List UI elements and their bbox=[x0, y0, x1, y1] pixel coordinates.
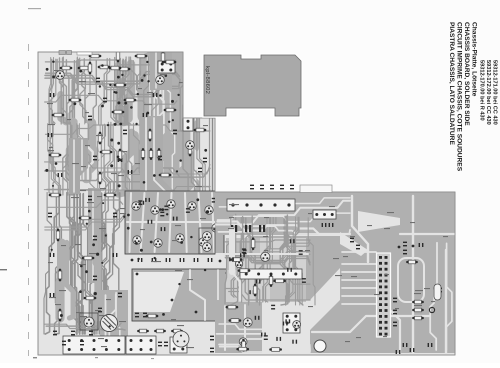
pad bbox=[147, 80, 149, 82]
pad bbox=[146, 61, 148, 63]
wire bbox=[209, 118, 211, 192]
wire bbox=[101, 193, 109, 334]
pad bbox=[137, 258, 139, 260]
registration mark top-left bbox=[28, 8, 41, 9]
wire bbox=[45, 74, 179, 84]
transistor Q7 bbox=[154, 239, 162, 247]
wire bbox=[189, 58, 195, 195]
resistor R101 bbox=[78, 66, 91, 70]
capacitor C112 bbox=[152, 258, 157, 262]
copper pour bbox=[156, 57, 169, 194]
capacitor C134 bbox=[240, 336, 244, 341]
wire bbox=[225, 240, 310, 255]
transistor Q30 hatched bbox=[101, 315, 118, 332]
pad bbox=[219, 260, 222, 263]
resistor R128 bbox=[89, 54, 102, 58]
pad bbox=[110, 139, 113, 142]
resistor R135 bbox=[69, 98, 82, 102]
capacitor C159 bbox=[285, 319, 290, 323]
wire bbox=[75, 194, 80, 335]
wire bbox=[216, 201, 350, 225]
transistor Q1 bbox=[132, 202, 140, 210]
pad bbox=[127, 227, 130, 230]
wire bbox=[244, 305, 246, 350]
wire bbox=[67, 122, 73, 195]
wire bbox=[264, 216, 271, 302]
wire bbox=[157, 56, 164, 125]
wire bbox=[219, 322, 310, 329]
copper pour bbox=[135, 135, 138, 194]
wire bbox=[127, 221, 222, 223]
copper pour bbox=[118, 64, 122, 122]
wire bbox=[256, 218, 267, 302]
resistor R138 bbox=[112, 110, 125, 114]
resistor R112 bbox=[171, 329, 183, 333]
connector IC4 bbox=[126, 336, 156, 354]
copper pour bbox=[145, 58, 154, 194]
pad bbox=[196, 198, 199, 201]
wire bbox=[178, 57, 181, 124]
pad bbox=[107, 124, 109, 126]
copper pour bbox=[88, 188, 101, 283]
pad bbox=[101, 64, 104, 67]
copper pour bbox=[226, 238, 260, 270]
wire bbox=[154, 118, 166, 210]
wire bbox=[101, 125, 108, 195]
resistor R107 bbox=[100, 150, 113, 154]
wire bbox=[48, 125, 60, 195]
wire bbox=[285, 216, 295, 305]
pad bbox=[135, 123, 137, 125]
wire bbox=[145, 118, 147, 210]
pad bbox=[114, 123, 117, 126]
wire bbox=[70, 193, 83, 334]
transistor Q14 bbox=[235, 260, 242, 267]
wire bbox=[231, 217, 243, 306]
pad bbox=[204, 149, 207, 152]
wire bbox=[66, 124, 71, 195]
capacitor C111 bbox=[138, 258, 143, 262]
pad bbox=[143, 74, 145, 76]
wire bbox=[217, 222, 350, 235]
board edge tab bbox=[300, 185, 332, 193]
copper pour bbox=[192, 57, 199, 194]
wire bbox=[219, 339, 310, 351]
capacitor C120 bbox=[164, 342, 168, 347]
wire bbox=[111, 122, 117, 193]
wire bbox=[84, 128, 87, 180]
wire bbox=[134, 123, 144, 195]
pad bbox=[171, 100, 174, 103]
pad bbox=[85, 270, 88, 273]
wire bbox=[57, 59, 67, 124]
resistor R132 bbox=[88, 62, 92, 75]
transistor Q17 bbox=[203, 232, 212, 241]
capacitor C163 bbox=[256, 280, 261, 284]
wire bbox=[342, 279, 376, 281]
connector IC8 bbox=[283, 313, 300, 333]
capacitor C143 bbox=[438, 288, 442, 293]
wire bbox=[78, 61, 87, 122]
wire bbox=[398, 258, 424, 302]
wire bbox=[60, 58, 68, 124]
capacitor C154 bbox=[299, 250, 303, 255]
capacitor C191 bbox=[118, 293, 122, 298]
resistor R154 bbox=[58, 309, 62, 322]
wire bbox=[125, 61, 131, 125]
wire bbox=[180, 57, 188, 195]
wire bbox=[127, 61, 133, 125]
transistor Q19 bbox=[239, 338, 247, 346]
transistor Q12 bbox=[84, 317, 94, 327]
reference labels bbox=[47, 70, 211, 348]
transistor Q8 bbox=[176, 234, 184, 242]
pad bbox=[226, 272, 229, 275]
resistor R106 bbox=[157, 148, 161, 160]
wire bbox=[185, 193, 187, 252]
wire bbox=[68, 126, 74, 196]
wire bbox=[97, 192, 110, 334]
wire bbox=[87, 193, 99, 330]
capacitor C192 bbox=[98, 308, 102, 313]
resistor R139 bbox=[164, 108, 177, 112]
wire bbox=[169, 193, 171, 252]
pad bbox=[124, 102, 127, 105]
wire bbox=[94, 194, 106, 334]
wire bbox=[69, 59, 79, 124]
connector IC3 bbox=[63, 336, 125, 354]
resistor R141 bbox=[148, 129, 152, 142]
wire bbox=[225, 240, 310, 242]
wire bbox=[50, 123, 55, 195]
capacitor C130 bbox=[220, 336, 224, 341]
wire bbox=[116, 59, 120, 124]
wire bbox=[107, 294, 116, 338]
resistor R116 bbox=[406, 260, 418, 264]
copper pour bbox=[95, 243, 98, 318]
wire bbox=[49, 59, 55, 123]
wire bbox=[66, 60, 69, 124]
pad bbox=[171, 299, 174, 302]
copper pour bbox=[168, 57, 179, 194]
capacitor C126 bbox=[80, 341, 84, 346]
pad bbox=[115, 91, 118, 94]
resistor R104 bbox=[141, 148, 145, 160]
wire bbox=[116, 293, 120, 338]
wire bbox=[212, 118, 214, 192]
wire bbox=[342, 287, 376, 289]
pad bbox=[79, 290, 82, 293]
wire bbox=[45, 72, 179, 82]
wire bbox=[90, 194, 100, 330]
wire bbox=[266, 216, 276, 302]
wire bbox=[44, 193, 52, 335]
board edge tab A bbox=[59, 51, 66, 55]
resistor R146 bbox=[159, 173, 172, 177]
capacitor C106 bbox=[212, 198, 216, 203]
pad bbox=[273, 203, 276, 206]
wire bbox=[125, 61, 128, 124]
pad bbox=[176, 170, 178, 172]
wire bbox=[98, 126, 102, 194]
wire bbox=[55, 196, 60, 334]
wire bbox=[63, 58, 71, 124]
wire bbox=[187, 56, 195, 194]
wire bbox=[105, 125, 111, 195]
svg-text:59312-171.00 bei CC 430: 59312-171.00 bei CC 430 bbox=[492, 60, 498, 125]
transistor Q22 bbox=[186, 141, 195, 150]
resistor R105 bbox=[149, 148, 153, 160]
wire bbox=[140, 57, 142, 124]
capacitor C116 bbox=[208, 258, 213, 262]
pad bbox=[109, 84, 111, 86]
wire bbox=[149, 60, 164, 194]
wire bbox=[234, 217, 244, 298]
capacitor C182 bbox=[198, 168, 202, 173]
board clearing slash bbox=[340, 232, 368, 256]
pad bbox=[117, 76, 120, 79]
copper pour bbox=[174, 58, 189, 194]
capacitor C129 bbox=[210, 348, 214, 353]
wire bbox=[138, 57, 140, 124]
pad bbox=[94, 292, 97, 295]
connector IC7 bbox=[240, 269, 302, 279]
capacitor C135 bbox=[240, 348, 244, 353]
transistor Q9 bbox=[199, 238, 207, 246]
capacitor C144 bbox=[403, 343, 408, 347]
wire bbox=[70, 122, 76, 195]
pad bbox=[123, 216, 125, 218]
pad bbox=[52, 61, 54, 63]
pad bbox=[398, 246, 401, 249]
wire bbox=[117, 60, 126, 124]
wire bbox=[280, 218, 286, 302]
wire bbox=[86, 124, 93, 180]
capacitor C132 bbox=[230, 336, 234, 341]
pad bbox=[195, 311, 198, 314]
wire bbox=[131, 57, 141, 124]
wire bbox=[390, 260, 400, 353]
wire bbox=[70, 61, 75, 124]
resistor R131 bbox=[161, 51, 165, 64]
pad bbox=[172, 119, 174, 121]
wire bbox=[229, 256, 310, 265]
capacitor C124 bbox=[62, 341, 66, 346]
capacitor C108 bbox=[164, 206, 168, 211]
wire bbox=[98, 193, 103, 334]
wire bbox=[72, 126, 79, 195]
resistor R126 bbox=[236, 347, 249, 351]
capacitor C169 bbox=[96, 78, 100, 83]
copper pour bbox=[164, 58, 175, 194]
wire bbox=[45, 323, 121, 330]
wire bbox=[107, 193, 120, 333]
wire bbox=[45, 168, 210, 187]
wire bbox=[81, 140, 83, 170]
wire bbox=[218, 213, 351, 222]
wire bbox=[286, 216, 292, 305]
resistor R117 bbox=[229, 319, 242, 323]
page speck bbox=[33, 357, 37, 358]
wire bbox=[93, 61, 96, 124]
resistor R134 bbox=[114, 83, 127, 87]
pad bbox=[193, 73, 196, 76]
capacitor C156 bbox=[283, 322, 288, 326]
capacitor C121 bbox=[135, 313, 139, 318]
resistor R121 bbox=[226, 305, 239, 309]
pad bbox=[287, 203, 290, 206]
wire bbox=[445, 250, 447, 353]
wire bbox=[119, 59, 123, 124]
wire bbox=[296, 217, 303, 305]
wire bbox=[225, 243, 310, 258]
wire bbox=[49, 58, 51, 125]
capacitor C100 bbox=[118, 158, 123, 162]
pad bbox=[205, 93, 208, 96]
wire bbox=[342, 271, 376, 273]
wire bbox=[148, 56, 153, 124]
capacitor C177 bbox=[173, 130, 177, 135]
resistor R120 bbox=[253, 284, 257, 297]
capacitor C184 bbox=[48, 213, 52, 218]
pad bbox=[166, 213, 168, 215]
wire bbox=[113, 60, 123, 124]
capacitor C158 bbox=[271, 305, 275, 310]
wire bbox=[141, 56, 147, 124]
wire bbox=[129, 123, 132, 195]
pad bbox=[135, 242, 138, 245]
wire bbox=[46, 76, 180, 97]
pad bbox=[96, 253, 99, 256]
wire bbox=[125, 125, 132, 193]
capacitor C172 bbox=[153, 93, 158, 97]
wire bbox=[81, 194, 89, 334]
pad bbox=[161, 208, 164, 211]
pad bbox=[119, 123, 122, 126]
wire bbox=[155, 53, 157, 88]
pad bbox=[190, 236, 192, 238]
wire bbox=[212, 193, 214, 252]
pad bbox=[52, 76, 55, 79]
resistor R143 bbox=[118, 149, 122, 162]
capacitor C141 bbox=[350, 238, 354, 243]
wire bbox=[122, 57, 126, 124]
wire bbox=[72, 61, 77, 124]
transistor Q16 bbox=[243, 318, 252, 327]
wire bbox=[108, 122, 114, 193]
capacitor C176 bbox=[123, 130, 127, 135]
wire bbox=[99, 125, 106, 195]
copper pour bbox=[215, 192, 455, 353]
pad bbox=[99, 85, 101, 87]
reference labels bbox=[228, 204, 448, 342]
wire bbox=[342, 295, 376, 297]
transistor Q5 bbox=[205, 206, 213, 214]
resistor R151 bbox=[82, 256, 95, 260]
wire bbox=[50, 124, 61, 195]
copper pour bbox=[215, 192, 350, 235]
pad bbox=[150, 241, 153, 244]
wire bbox=[86, 124, 96, 190]
capacitor C139 bbox=[393, 310, 397, 315]
resistor R108 bbox=[186, 77, 190, 91]
pad bbox=[136, 273, 139, 276]
pad bbox=[74, 102, 77, 105]
capacitor C145 bbox=[410, 348, 415, 352]
wire bbox=[229, 292, 310, 301]
wire bbox=[155, 193, 158, 252]
wire bbox=[225, 254, 310, 263]
copper pour bbox=[70, 122, 75, 178]
transistor Q13 bbox=[293, 321, 301, 329]
resistor R149 bbox=[79, 216, 92, 220]
capacitor C127 bbox=[89, 331, 93, 336]
wire bbox=[108, 125, 114, 195]
transistor Q15 bbox=[261, 252, 270, 261]
wire bbox=[216, 253, 308, 255]
capacitor C173 bbox=[88, 116, 92, 121]
component box bbox=[199, 228, 215, 254]
wire bbox=[55, 194, 62, 334]
resistor R155 bbox=[164, 60, 177, 64]
resistor R123 bbox=[251, 237, 255, 250]
page cut line bbox=[28, 44, 30, 356]
capacitor C114 bbox=[180, 258, 185, 262]
copper pour bbox=[61, 244, 66, 318]
capacitor C131 bbox=[220, 348, 224, 353]
pad bbox=[80, 265, 83, 268]
wire bbox=[281, 215, 288, 305]
wire bbox=[122, 61, 125, 124]
wire bbox=[45, 95, 177, 104]
wire bbox=[163, 56, 167, 124]
capacitor C160 bbox=[231, 225, 237, 232]
wire bbox=[283, 218, 289, 302]
capacitor C110 bbox=[186, 208, 190, 213]
resistor R156 bbox=[194, 128, 207, 132]
wire bbox=[118, 58, 125, 124]
resistor R110 bbox=[137, 329, 149, 333]
registration mark left-middle bbox=[0, 269, 7, 270]
wire bbox=[125, 57, 129, 124]
resistor R122 bbox=[273, 279, 286, 283]
wire bbox=[140, 58, 141, 124]
copper pour bbox=[60, 243, 62, 318]
capacitor C183 bbox=[88, 196, 92, 201]
capacitor C157 bbox=[242, 248, 246, 253]
pad bbox=[412, 245, 415, 248]
wire bbox=[197, 57, 203, 195]
capacitor C102 bbox=[161, 227, 166, 231]
wire bbox=[199, 193, 202, 252]
board clearing bbox=[134, 272, 184, 312]
resistor R153 bbox=[84, 296, 97, 300]
board edge tab B bbox=[67, 51, 72, 55]
capacitor C190 bbox=[50, 293, 55, 297]
wire bbox=[162, 57, 168, 124]
resistor R127 bbox=[269, 348, 282, 352]
resistor R144 bbox=[188, 144, 192, 157]
resistor R119 bbox=[230, 258, 243, 262]
copper pour bbox=[144, 60, 149, 194]
copper pour bbox=[69, 121, 73, 178]
resistor R102 bbox=[98, 65, 111, 69]
wire bbox=[79, 124, 84, 195]
wire bbox=[141, 193, 145, 252]
capacitor C197 bbox=[260, 185, 264, 190]
transistor Q4 bbox=[188, 202, 196, 210]
slot hole bbox=[434, 284, 441, 300]
